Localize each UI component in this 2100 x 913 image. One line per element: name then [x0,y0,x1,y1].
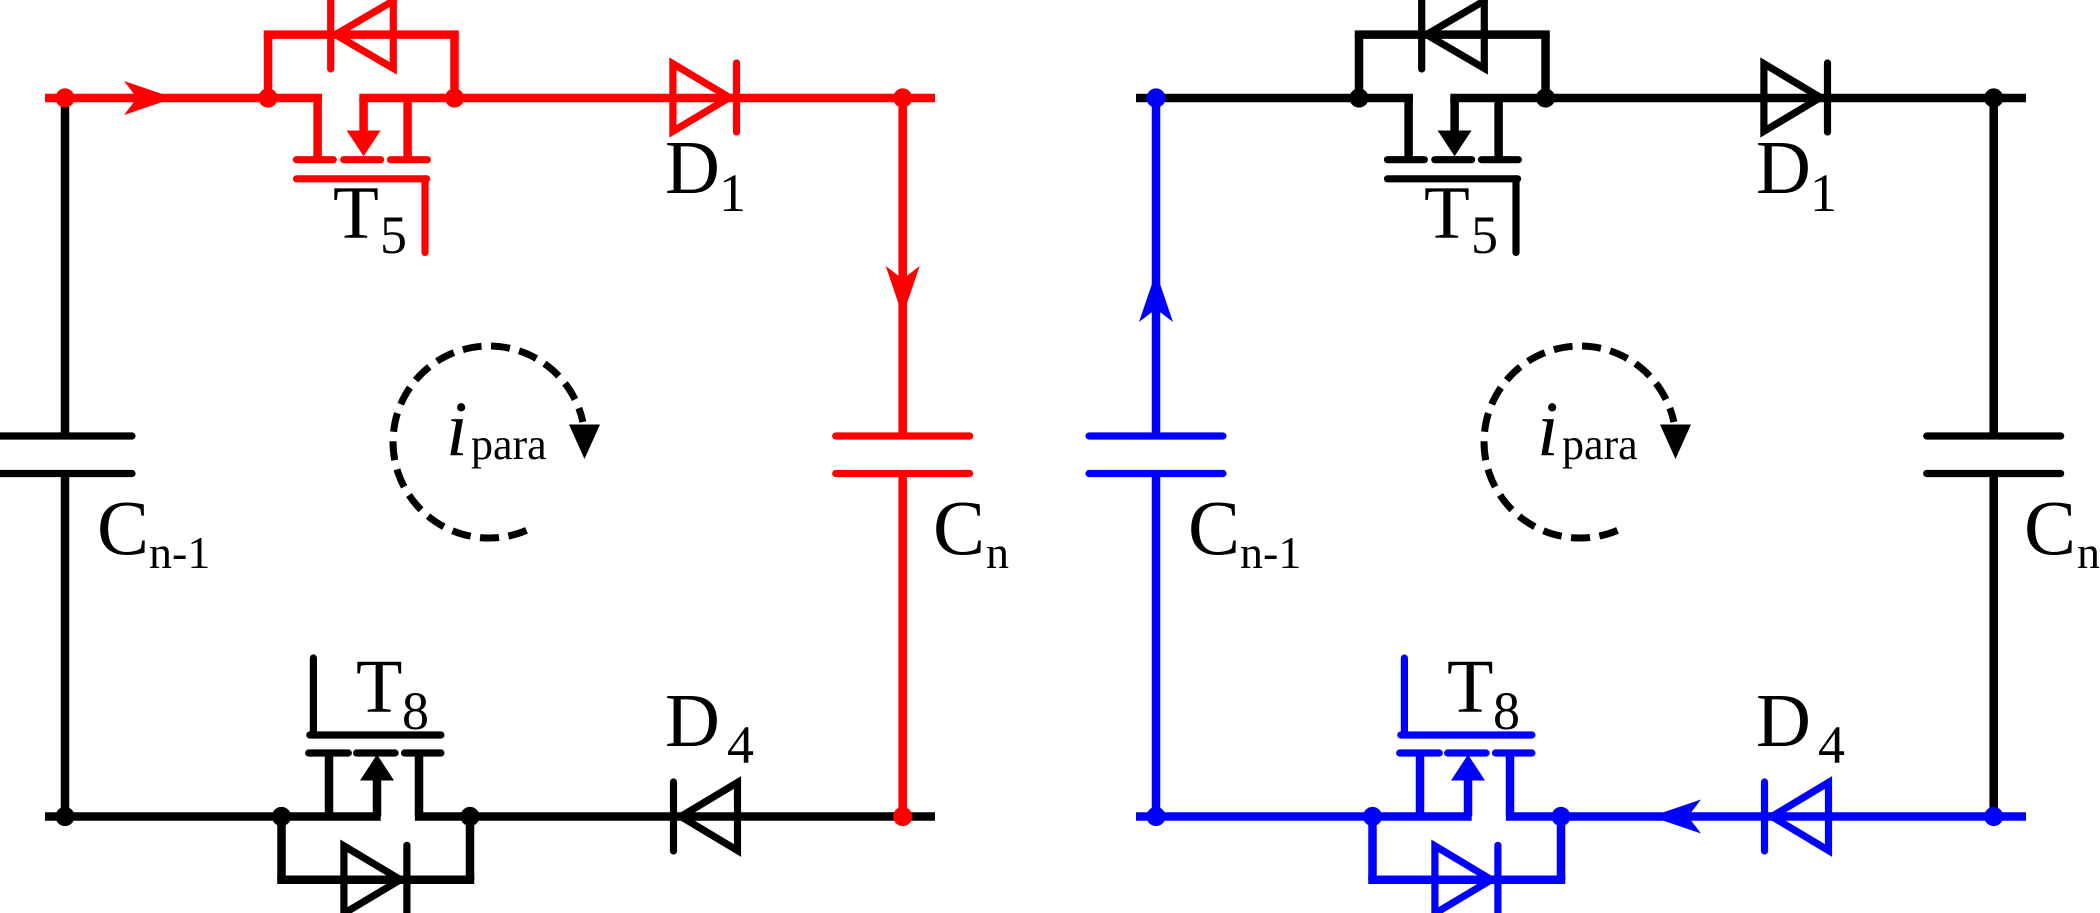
capacitor Cn (left cell) [836,432,970,439]
diode D1 (right cell) [1764,64,1821,132]
svg-text:para: para [1562,420,1638,469]
node: right cell T5 right junction [1536,88,1555,107]
wire: right cell top bus left segment [1136,94,1413,103]
svg-text:5: 5 [380,205,407,265]
anti-parallel diode of T5 (left cell) [264,35,273,98]
current arrow: blue left-pointing on bottom bus [1651,800,1701,834]
svg-text:n-1: n-1 [1240,527,1301,578]
svg-text:n: n [986,527,1009,578]
svg-text:1: 1 [719,163,746,223]
transistor T5 (left cell) [313,98,322,160]
svg-text:para: para [471,420,547,469]
dashed loop i_para (left cell) [393,346,583,538]
wire: left cell right rail lower [898,477,907,817]
node: left cell top-left junction [55,88,74,107]
svg-text:C: C [2024,484,2076,571]
wire: right cell bottom bus left segment [1136,812,1472,821]
svg-text:D: D [1756,679,1811,763]
wire: left cell bottom bus left segment [45,812,381,821]
svg-text:i: i [1537,385,1559,472]
svg-text:4: 4 [1818,715,1845,775]
transistor T8 (right cell) [1401,658,1408,735]
diode D1 (left cell) [673,64,730,132]
node: left cell T8 right junction [460,807,479,826]
svg-text:i: i [446,385,468,472]
svg-text:T: T [1424,172,1470,255]
wire: right cell top bus right segment [1450,94,2026,103]
diode D4 (left cell) [681,783,738,851]
node: right cell top-right junction [1984,88,2003,107]
svg-text:C: C [1188,484,1240,571]
node: left cell T5 left junction [258,88,277,107]
node: right cell bottom-right junction [1984,807,2003,826]
node: right cell bottom-left junction [1146,807,1165,826]
wire: left cell right rail upper [898,98,907,433]
svg-text:5: 5 [1471,205,1498,265]
current arrow: red down-pointing on right rail [886,266,920,316]
arrowhead of i_para loop (right cell) [1660,425,1691,460]
svg-text:1: 1 [1810,163,1837,223]
wire: right cell left rail lower [1152,477,1161,817]
node: left cell T8 left junction [272,807,291,826]
wire: right cell right rail lower [1989,477,1998,817]
wire: right cell left rail upper [1152,98,1161,433]
node: left cell top-right junction [893,88,912,107]
svg-text:T: T [356,645,402,729]
svg-text:n: n [2077,527,2100,578]
wire: left cell top bus right segment [359,94,935,103]
wire: left cell left rail lower [61,477,70,817]
svg-text:8: 8 [402,681,429,741]
capacitor Cn (right cell) [1927,432,2061,439]
wire: left cell bottom bus right segment [415,812,935,821]
transistor T8 (left cell) [310,658,317,735]
svg-text:D: D [1756,126,1811,210]
node: left cell bottom-left junction [55,807,74,826]
svg-text:C: C [933,484,985,571]
svg-text:8: 8 [1493,681,1520,741]
node: left cell bottom-right junction [893,807,912,826]
capacitor Cn-1 (left cell) [0,432,132,439]
svg-text:T: T [333,172,379,255]
node: right cell T8 right junction [1551,807,1570,826]
svg-text:T: T [1447,645,1493,729]
wire: left cell left rail upper [61,98,70,433]
anti-parallel diode of T5 (right cell) [1355,35,1364,98]
anti-parallel diode of T8 (right cell) [1368,817,1377,880]
transistor T5 (right cell) [1404,98,1413,160]
wire: left cell top bus left segment [45,94,322,103]
dashed loop i_para (right cell) [1484,346,1674,538]
svg-text:C: C [97,484,149,571]
node: left cell T5 right junction [445,88,464,107]
node: right cell T5 left junction [1349,88,1368,107]
wire: right cell bottom bus right segment [1506,812,2026,821]
wire: right cell right rail upper [1989,98,1998,433]
arrowhead of i_para loop (left cell) [569,425,600,460]
node: right cell T8 left junction [1363,807,1382,826]
svg-text:4: 4 [727,715,754,775]
svg-text:D: D [665,679,720,763]
current arrow: blue up-pointing on left rail [1139,272,1173,322]
node: right cell top-left junction [1146,88,1165,107]
diode D4 (right cell) [1772,783,1829,851]
capacitor Cn-1 (right cell) [1089,432,1223,439]
anti-parallel diode of T8 (left cell) [277,817,286,880]
svg-text:n-1: n-1 [149,527,210,578]
current arrow: red right-pointing on top bus [124,81,174,115]
svg-text:D: D [665,126,720,210]
